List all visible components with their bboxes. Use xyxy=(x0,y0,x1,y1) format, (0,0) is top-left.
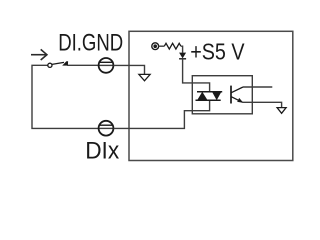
wire: collector output xyxy=(243,86,272,88)
actuate arrow xyxy=(31,49,47,60)
ground (DI.GND internal) xyxy=(139,74,150,80)
svg-text:DI.GND: DI.GND xyxy=(58,29,123,56)
terminal DIx xyxy=(99,121,114,136)
switch S1 xyxy=(48,61,99,67)
wire: left loop from switch down to DIx terminal xyxy=(32,65,99,128)
optocoupler phototransistor xyxy=(231,86,243,104)
wire: DIx terminal to optocoupler LED bottom xyxy=(113,100,209,128)
svg-text:+S5 V: +S5 V xyxy=(190,39,245,65)
wire: resistor to diode xyxy=(181,46,183,53)
optocoupler U1 package xyxy=(192,76,252,114)
resistor R xyxy=(164,43,181,49)
wire: DI.GND terminal to internal ground xyxy=(113,65,144,74)
svg-text:DIx: DIx xyxy=(85,139,119,165)
terminal DI.GND xyxy=(99,58,114,73)
optocoupler LED pair (anti-parallel) xyxy=(196,92,223,101)
diode D (series) xyxy=(179,53,186,59)
terminal +S5V (dot) xyxy=(152,43,165,50)
wire: diode to optocoupler LED top xyxy=(183,59,210,92)
wire: emitter to ground xyxy=(243,102,282,107)
ground (emitter) xyxy=(277,108,286,114)
device box xyxy=(129,31,293,160)
